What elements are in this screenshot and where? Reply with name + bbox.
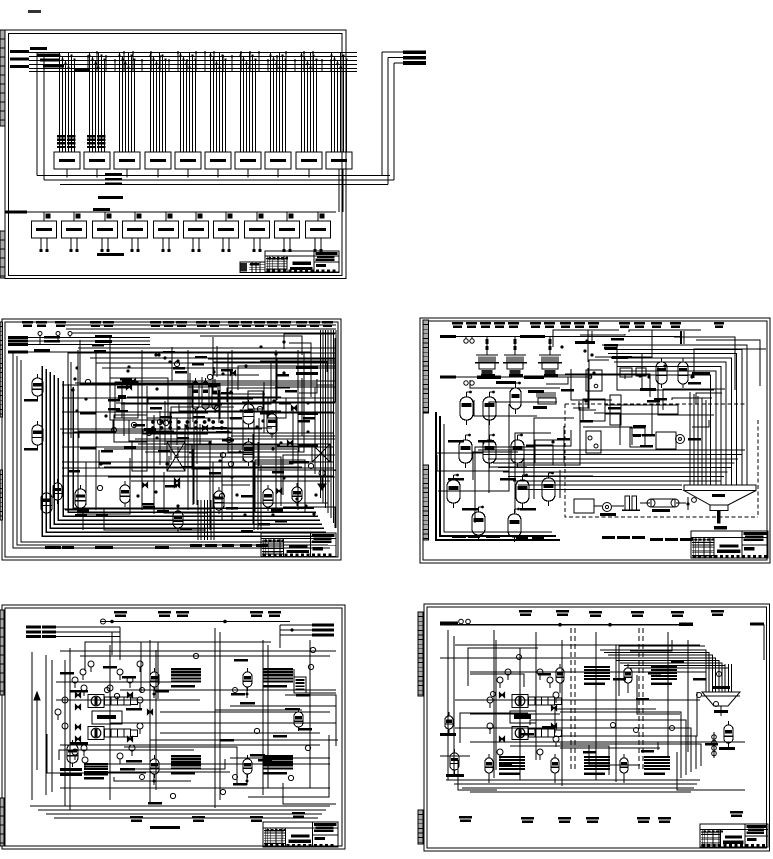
feeder line 2	[8, 349, 120, 353]
vessel V53	[719, 721, 735, 750]
left labels	[448, 440, 536, 511]
sheet 1 revision strip bottom-left	[0, 231, 5, 278]
wire group mid labels	[87, 135, 106, 148]
instrument bubbles	[85, 361, 313, 498]
vessel V213	[267, 410, 277, 438]
enclosure 1	[228, 352, 304, 452]
wire group 2 drops	[88, 53, 105, 153]
vessel stub labels	[24, 399, 96, 451]
wire group 6 drops	[209, 53, 226, 153]
wire riser right	[382, 52, 403, 184]
top labels	[114, 611, 281, 617]
box main B	[610, 395, 621, 425]
tray filter F3	[538, 337, 562, 377]
title block sheet1	[265, 251, 339, 272]
wires bottom mid	[560, 470, 686, 506]
line labels scatter	[499, 660, 718, 767]
box D	[630, 428, 645, 447]
right junction dots	[551, 339, 694, 443]
wire main risers	[78, 350, 298, 510]
vessel VR2	[678, 358, 688, 388]
wire group 7 drops	[239, 53, 256, 153]
wire long runs	[60, 352, 335, 509]
wire right mesh	[546, 330, 766, 445]
feeder text note	[30, 47, 89, 72]
feeder lines left	[8, 332, 150, 346]
wire vertical trunks	[448, 630, 688, 786]
sheet 1 revision strip top-left	[0, 30, 5, 126]
vessel V210	[263, 485, 273, 511]
wire vertical pair	[339, 169, 343, 212]
terminal box TB1-2	[84, 152, 110, 169]
pump P3	[676, 435, 685, 444]
candle filter	[294, 677, 306, 693]
small rect B	[636, 368, 646, 376]
big box center	[114, 415, 147, 442]
vessel V32	[483, 391, 496, 425]
wire group 3 drops	[118, 53, 135, 153]
vessel V33	[459, 434, 472, 468]
cable label right 3	[403, 61, 426, 65]
wire border loops	[13, 352, 330, 548]
terminal box TB1-5	[175, 152, 201, 169]
wire top runs	[60, 325, 336, 368]
terminal box TB1-4	[145, 152, 171, 169]
sample cooler SC4	[233, 755, 294, 785]
terminal box TB1-1	[54, 152, 80, 169]
bottom labels	[130, 812, 305, 822]
sheet 1 paper border outer	[5, 30, 346, 279]
sheet 3 revision strip A	[423, 320, 429, 413]
text lower caption	[97, 253, 124, 256]
sample cooler SC5	[485, 754, 525, 783]
sample cooler SC2	[624, 664, 677, 693]
right labels scatter	[557, 338, 701, 448]
pump label box	[510, 711, 536, 723]
wire bottom loops	[30, 806, 330, 818]
title block sheet5	[700, 824, 768, 847]
pump P4	[600, 503, 616, 516]
box X1	[167, 442, 185, 471]
sheet 5 border outer	[424, 604, 770, 851]
sight glasses	[712, 732, 717, 758]
terminal box TB1-9	[296, 152, 322, 169]
hopper H1	[684, 485, 756, 529]
cable label right 1	[403, 51, 426, 55]
sample cooler SC2	[233, 668, 294, 698]
wire mid-right runs	[95, 702, 336, 772]
box F	[574, 499, 594, 513]
wire top bus lines	[29, 53, 357, 72]
vessel V28	[243, 400, 254, 428]
sheet 3 revision strip B	[423, 465, 429, 540]
manual valves	[126, 370, 296, 493]
vessel VR1	[656, 358, 667, 388]
twin column 2	[202, 378, 209, 413]
wire group 9 drops	[300, 53, 317, 153]
top stream labels	[22, 321, 333, 327]
header bar	[605, 405, 678, 414]
vessel V51	[446, 749, 464, 777]
vessel V34	[483, 434, 496, 468]
sheet 4 revision strip B	[0, 798, 4, 846]
device box D-7	[214, 212, 239, 252]
sheet 4 revision strip A	[0, 610, 4, 695]
box G with ports	[586, 370, 602, 391]
wire right bundle elbows	[602, 345, 747, 485]
feeder lines left	[26, 626, 120, 660]
feeder line 2	[440, 375, 592, 385]
wire horizontal trunks	[440, 645, 706, 756]
inline labels	[68, 344, 323, 532]
device box D-2	[62, 212, 87, 252]
wire box stubs	[67, 169, 309, 178]
small rect A	[620, 368, 632, 377]
sheet 2 border inner	[5, 322, 338, 557]
wire top header	[440, 619, 764, 660]
hopper H5	[702, 686, 740, 716]
vessel V35	[511, 434, 524, 468]
device box D-1	[32, 212, 57, 252]
pressure relief group	[318, 470, 326, 490]
vessel V39	[472, 506, 485, 540]
mid vessel	[510, 382, 556, 414]
terminal box TB1-3	[114, 152, 140, 169]
top labels	[519, 610, 724, 617]
valves pumps	[75, 692, 152, 741]
wire group 5 drops	[179, 53, 196, 153]
stack bottom-left	[84, 763, 108, 780]
wire hopper bundle	[706, 664, 732, 692]
terminal box TB1-10	[326, 152, 352, 169]
labels pumps	[60, 672, 142, 763]
wire left mesh	[436, 400, 593, 523]
sheet 4 border inner	[5, 608, 342, 846]
vessel V29	[243, 438, 254, 466]
terminal box TB1-7	[235, 152, 261, 169]
exchanger header	[147, 418, 232, 432]
feeder cable label 3	[10, 65, 29, 68]
small valve cluster	[686, 497, 696, 510]
vessel V41	[60, 740, 82, 776]
device box D-6	[184, 212, 209, 252]
valves pumps	[499, 692, 556, 741]
sheet 3 border inner	[423, 321, 767, 560]
enclosure 2	[110, 378, 168, 420]
wire left drops	[37, 53, 44, 181]
tray filter F1	[475, 337, 499, 377]
wire bundle fan	[478, 450, 745, 490]
dashed pair 2	[639, 628, 643, 772]
reactor box A	[115, 382, 138, 418]
pump PB	[88, 727, 138, 740]
twin column 1	[192, 378, 199, 413]
line labels scatter	[103, 659, 312, 805]
wire group mid labels	[57, 135, 76, 148]
battery limit dashed	[565, 404, 758, 517]
column C	[132, 442, 147, 471]
twin column 3	[212, 379, 218, 413]
junction dots	[71, 340, 317, 516]
vessel V23	[53, 479, 62, 504]
box E	[656, 432, 676, 449]
wire bundle extra verticals	[690, 392, 706, 485]
wire bus taps	[87, 51, 332, 71]
vessel V38	[542, 472, 555, 506]
sample cooler SC1	[140, 668, 202, 698]
tray filter F2	[503, 337, 527, 377]
wire main loop bundle	[42, 366, 328, 536]
vessel V37	[516, 474, 529, 508]
dashed pair 1	[571, 628, 575, 772]
vessel V42	[294, 708, 303, 731]
device box D-3	[93, 212, 118, 252]
sheet 2 revision ticks	[0, 322, 3, 520]
terminal box TB1-6	[205, 152, 231, 169]
bottom labels	[45, 544, 268, 549]
sheet 4 border outer	[2, 605, 345, 849]
valve X box	[312, 444, 330, 462]
vessel V52	[440, 712, 456, 736]
vessel V24	[41, 489, 52, 517]
vessel V212	[214, 487, 224, 514]
tray collector	[470, 380, 560, 388]
box C	[586, 431, 601, 453]
vessel V25	[75, 485, 86, 512]
wire group 1 drops	[58, 53, 75, 153]
title block sheet2	[261, 533, 336, 557]
sample cooler SC1	[556, 664, 610, 693]
wire central mesh	[458, 640, 745, 790]
instrument bubbles scatter	[104, 647, 315, 798]
vessel V31	[460, 391, 473, 425]
sheet 1 corner note	[28, 10, 41, 13]
wire vertical trunks	[32, 628, 310, 810]
feeder cable label 1	[10, 50, 29, 53]
wire right verticals	[320, 330, 336, 528]
pump PA	[88, 695, 138, 708]
wire bundle elbows	[600, 650, 728, 668]
wire group 8 drops	[269, 53, 286, 153]
vessel V26	[120, 481, 130, 507]
cable label right 2	[403, 56, 426, 60]
sheet 3 border outer	[420, 318, 770, 563]
feeder cable label 2	[10, 57, 29, 60]
vessel V310	[508, 508, 521, 542]
wire main headers	[62, 385, 334, 476]
wire group 10 drops	[330, 53, 347, 153]
device box D-4	[123, 212, 148, 252]
sheet 5 revision strip B	[418, 810, 423, 844]
text lower title	[98, 196, 123, 199]
right labels	[296, 366, 318, 447]
horiz vessel	[647, 499, 679, 512]
device box D-10	[306, 212, 331, 252]
bottom labels B	[602, 536, 693, 541]
vessel V22	[32, 421, 43, 449]
instrument bubbles scatter	[491, 655, 722, 733]
device box D-5	[154, 212, 179, 252]
pump PA	[512, 695, 562, 708]
wire vertical runs	[71, 337, 315, 530]
vessel V21	[32, 374, 43, 400]
feeder lines right	[280, 624, 334, 649]
sample cooler SC3	[140, 755, 202, 785]
wire lower bus	[5, 208, 336, 214]
bottom caption	[150, 826, 180, 829]
instrument bubbles pumps	[487, 669, 559, 760]
bottom labels	[459, 811, 743, 823]
top stream labels	[452, 322, 724, 328]
enclosure 3	[255, 460, 305, 512]
device box D-9	[275, 212, 300, 252]
wire left loops	[436, 412, 560, 540]
box right cluster A	[248, 391, 263, 409]
left arrow line	[34, 692, 40, 770]
sample cooler SC3	[551, 754, 610, 783]
header nozzle dots	[151, 420, 224, 430]
wire horizontal trunks	[56, 651, 338, 788]
wire group 4 drops	[149, 53, 166, 153]
vessel V211	[292, 483, 302, 506]
sheet 1 paper border inner	[9, 34, 343, 276]
wire bottom loops	[446, 780, 700, 792]
wire header top	[575, 331, 684, 344]
vessel V36	[447, 474, 460, 508]
wire staircase right	[560, 712, 701, 778]
instrument bubbles pumps	[55, 661, 143, 768]
wire top long	[100, 619, 290, 624]
device box D-8	[245, 212, 270, 252]
pump PB	[512, 727, 562, 740]
terminal box TB1-8	[265, 152, 291, 169]
feeder line 1	[440, 335, 681, 343]
title block annex	[240, 262, 265, 272]
sample cooler SC4	[620, 754, 670, 783]
sheet 5 border inner	[427, 607, 767, 848]
sheet 2 border outer	[2, 319, 341, 560]
wire bottom drops	[198, 500, 214, 540]
upper labels	[604, 344, 710, 391]
sheet 5 revision strip A	[418, 612, 423, 696]
box main A	[583, 399, 605, 421]
bottom labels A	[452, 535, 544, 540]
title block sheet3	[691, 531, 768, 558]
box right cluster B	[268, 398, 286, 418]
box X2	[192, 444, 210, 469]
vessel V27	[173, 507, 183, 532]
wire central mesh	[47, 642, 336, 804]
pump label box	[92, 711, 122, 724]
title block sheet4	[263, 822, 338, 847]
wire collectors	[37, 173, 394, 185]
cartridge filters	[622, 496, 640, 510]
wire central mesh	[65, 334, 335, 530]
